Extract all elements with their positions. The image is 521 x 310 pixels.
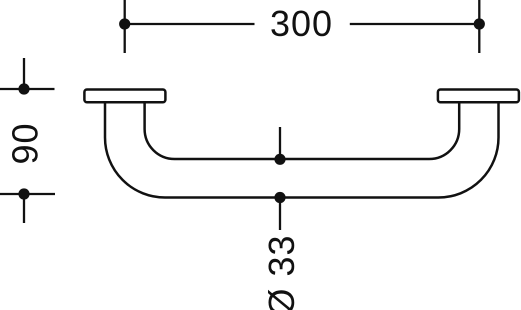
svg-text:300: 300 <box>270 3 333 44</box>
svg-text:90: 90 <box>5 122 46 164</box>
svg-text:Ø 33: Ø 33 <box>261 234 302 310</box>
